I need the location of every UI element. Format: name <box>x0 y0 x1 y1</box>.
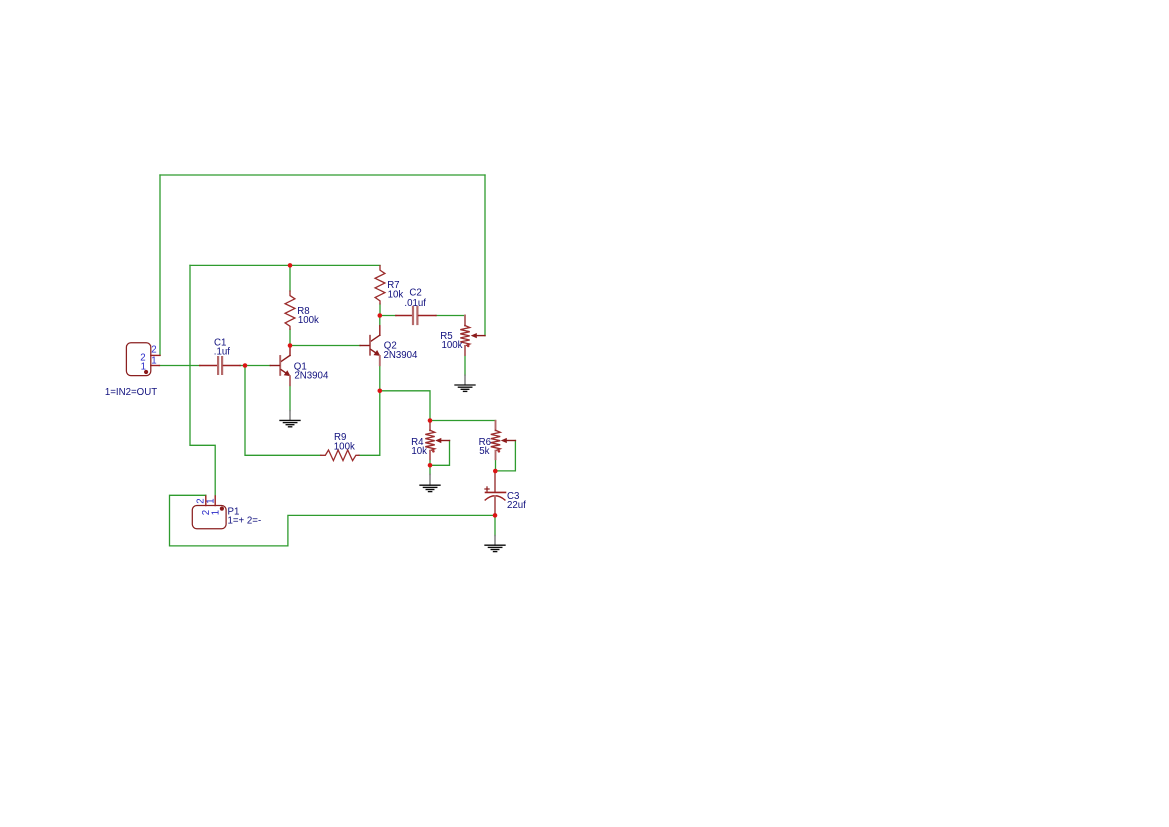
wire C2 to R5 top <box>436 315 465 317</box>
wire bottom return from C3 to P1 pin 2 <box>170 495 496 546</box>
wire Q2 emitter to node <box>379 365 381 391</box>
capacitor C3 22uf polarized <box>485 473 526 516</box>
wire R7 bottom short <box>379 304 381 316</box>
wire left vertical to connector pin 2 <box>159 175 161 355</box>
wire R5 bottom to ground <box>464 355 466 375</box>
ground under Q1 <box>280 411 300 427</box>
wire R8 node to Q2 base <box>290 345 360 347</box>
junction node Q2 emitter <box>378 389 383 394</box>
svg-text:.01uf: .01uf <box>404 298 426 309</box>
svg-text:1: 1 <box>206 498 217 503</box>
connector P1 (power, 2 pin) <box>192 496 261 529</box>
junction node R6/C3 <box>493 469 498 474</box>
svg-text:2: 2 <box>151 344 156 355</box>
resistor R8 100k <box>285 291 319 329</box>
svg-text:10k: 10k <box>411 446 427 457</box>
wire connector pin1 to C1 <box>159 365 200 367</box>
wire P1 pin2 stub top <box>205 494 207 497</box>
capacitor C2 .01uf <box>396 287 436 324</box>
junction node C3 bottom <box>493 513 498 518</box>
svg-text:2N3904: 2N3904 <box>294 370 329 381</box>
svg-text:1: 1 <box>141 361 146 372</box>
wire right vertical to R5 wiper <box>484 175 486 336</box>
svg-text:5k: 5k <box>479 446 489 457</box>
capacitor C1 .1uf <box>200 337 240 374</box>
potentiometer R5 100k <box>440 316 485 356</box>
svg-text:22uf: 22uf <box>507 500 526 511</box>
resistor R7 10k <box>375 266 403 304</box>
wire C1 to node A <box>240 365 245 367</box>
ground under R5 <box>455 375 475 391</box>
ground under R4 <box>420 475 440 492</box>
svg-text:1=IN2=OUT: 1=IN2=OUT <box>105 387 157 398</box>
junction node R4 bottom <box>428 463 433 468</box>
svg-text:1: 1 <box>151 356 156 367</box>
connector J (2 pin, IN/OUT) <box>126 343 160 376</box>
wire R7 node down to Q2 collector <box>379 316 381 326</box>
svg-text:10k: 10k <box>388 289 404 300</box>
wire node A to Q1 base <box>245 365 270 367</box>
wire R7 node to C2 <box>380 315 396 317</box>
wire R6 wiper loop <box>496 441 516 471</box>
junction node R7/C2/Q2 collector <box>378 313 383 318</box>
potentiometer R4 10k <box>411 421 449 460</box>
potentiometer R6 5k <box>479 421 516 459</box>
wire R8 bottom lead <box>289 329 291 345</box>
transistor Q2 2N3904 <box>360 326 418 365</box>
wire R4 wiper loop <box>430 441 450 466</box>
wire top feedback loop <box>160 174 485 176</box>
WIRES <box>159 175 515 546</box>
svg-text:1=+ 2=-: 1=+ 2=- <box>228 516 262 527</box>
wire C3 bottom to ground <box>494 515 496 535</box>
junction node R4 top <box>428 418 433 423</box>
svg-text:1: 1 <box>211 510 222 515</box>
wire inner rail drop to P1 pin 1 <box>190 265 215 496</box>
svg-text:C2: C2 <box>409 287 421 298</box>
wire R9 right up to Q2 emitter node <box>359 391 380 456</box>
svg-text:.1uf: .1uf <box>214 347 230 358</box>
wire Q1 emitter to ground <box>289 385 291 410</box>
junction node rail/R8 <box>288 263 293 268</box>
junction node A C1/Q1 base <box>243 363 248 368</box>
wire R8 top lead <box>289 265 291 291</box>
wire inner rail <box>190 264 380 266</box>
wire R4 bottom lead <box>429 459 431 474</box>
svg-text:100k: 100k <box>298 315 319 326</box>
wire R4 top to R6 top <box>430 421 496 422</box>
wire R6 bottom lead <box>495 459 497 471</box>
transistor Q1 2N3904 <box>270 348 329 385</box>
wire node A down to R9 left <box>245 366 321 456</box>
junction node R8/Q1 collector <box>288 343 293 348</box>
svg-text:100k: 100k <box>442 340 463 351</box>
svg-text:100k: 100k <box>334 441 355 452</box>
wire emitter node to R4 top <box>380 391 430 421</box>
ground under C3 <box>485 536 505 552</box>
resistor R9 100k <box>321 432 359 461</box>
svg-text:2N3904: 2N3904 <box>384 350 419 361</box>
